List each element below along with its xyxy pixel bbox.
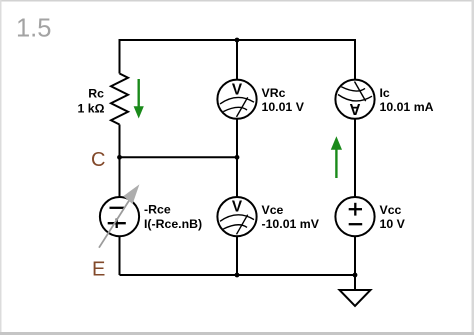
svg-text:10.01 mA: 10.01 mA [380,100,434,114]
junction node C left [117,155,122,160]
svg-text:Vce: Vce [262,203,284,217]
frame bottom [0,332,474,335]
svg-text:1.5: 1.5 [16,15,51,43]
controlled source -Rce [99,184,139,247]
svg-text:C: C [91,149,105,171]
wire middle: top to voltmeter VRc [236,40,238,80]
wire bottom horizontal [120,274,356,276]
svg-text:-10.01 mV: -10.01 mV [262,217,320,231]
wire top horizontal [120,39,356,41]
svg-text:1 kΩ: 1 kΩ [78,102,105,116]
wire right: Vcc to bottom [354,236,356,275]
junction bottom right [353,273,358,278]
wire left: resistor to node C [119,125,121,158]
svg-text:I(-Rce.nB): I(-Rce.nB) [144,217,202,231]
wire node C horizontal [120,156,238,158]
svg-text:A: A [349,100,360,117]
frame right [472,0,474,335]
voltmeter VRc [217,80,256,119]
wire left: node C to source -Rce [119,157,121,197]
svg-text:VRc: VRc [262,86,286,100]
svg-text:V: V [232,81,243,98]
ground [340,290,371,306]
wire to ground [354,275,356,290]
svg-text:Ic: Ic [380,86,390,100]
svg-text:10.01 V: 10.01 V [262,100,305,114]
green current arrow down (beside Rc) [134,79,144,119]
wire middle: VRc to node row [236,119,238,158]
svg-text:10 V: 10 V [380,217,406,231]
junction bottom middle [235,273,240,278]
junction node C middle [235,155,240,160]
svg-text:Rc: Rc [88,86,104,100]
svg-text:Vcc: Vcc [380,203,402,217]
wire right: top to ammeter Ic [354,39,356,80]
wire right: Ic to source Vcc [354,119,356,197]
voltmeter Vce [217,197,256,236]
frame left [0,0,2,335]
source Vcc [335,197,374,236]
ammeter Ic (meter rotated 180) [335,80,374,119]
frame top [0,0,474,2]
resistor R_c zigzag [111,74,128,125]
svg-text:-Rce: -Rce [144,203,171,217]
wire left: source -Rce to bottom [119,236,121,275]
green current arrow up (right branch) [331,136,342,178]
svg-text:V: V [232,199,243,216]
svg-text:E: E [92,259,105,281]
junction at top middle [235,38,240,43]
wire middle: node row to voltmeter Vce [236,157,238,197]
wire left top segment [119,39,121,74]
wire middle: Vce to bottom [236,236,238,275]
variable-source gray arrow [99,199,130,248]
